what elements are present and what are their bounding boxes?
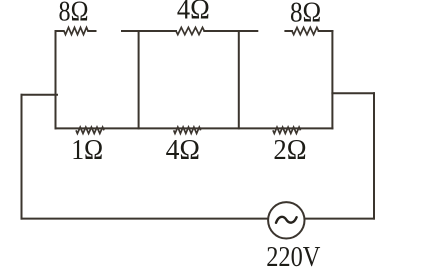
wire right connector	[332, 92, 374, 94]
wire top-mid left	[122, 30, 176, 32]
svg-text:220V: 220V	[266, 241, 320, 272]
wire left connector	[22, 94, 58, 96]
wire left outer vertical	[21, 95, 23, 219]
svg-text:2Ω: 2Ω	[273, 134, 306, 165]
wire middle row	[56, 127, 333, 129]
wire mid vertical right	[238, 31, 240, 128]
svg-text:4Ω: 4Ω	[177, 0, 210, 25]
wire right outer vertical	[373, 93, 375, 218]
wire top-right stub R	[319, 30, 333, 32]
resistor 4-ohm bottom	[174, 127, 201, 133]
resistor 8-ohm top-left	[64, 27, 88, 34]
ac source circle	[268, 202, 304, 238]
resistor 4-ohm top	[176, 27, 204, 34]
wire bottom right	[305, 218, 374, 220]
wire top-mid right	[204, 30, 257, 32]
svg-text:4Ω: 4Ω	[166, 134, 200, 165]
wire bottom left	[22, 218, 268, 220]
resistor 1-ohm	[76, 127, 104, 133]
wire top-left stub R	[88, 30, 95, 32]
svg-text:8Ω: 8Ω	[290, 0, 321, 28]
ac source tilde	[276, 217, 297, 223]
wire inner-right vertical	[331, 31, 333, 128]
resistor 2-ohm	[273, 127, 301, 133]
resistor 8-ohm top-right	[292, 27, 319, 34]
wire mid vertical left	[138, 31, 140, 128]
svg-text:8Ω: 8Ω	[59, 0, 89, 27]
wire top-right stub L	[285, 30, 292, 32]
wire inner-left vertical	[55, 31, 57, 128]
svg-text:1Ω: 1Ω	[71, 134, 103, 165]
wire top-left stub L	[56, 30, 64, 32]
